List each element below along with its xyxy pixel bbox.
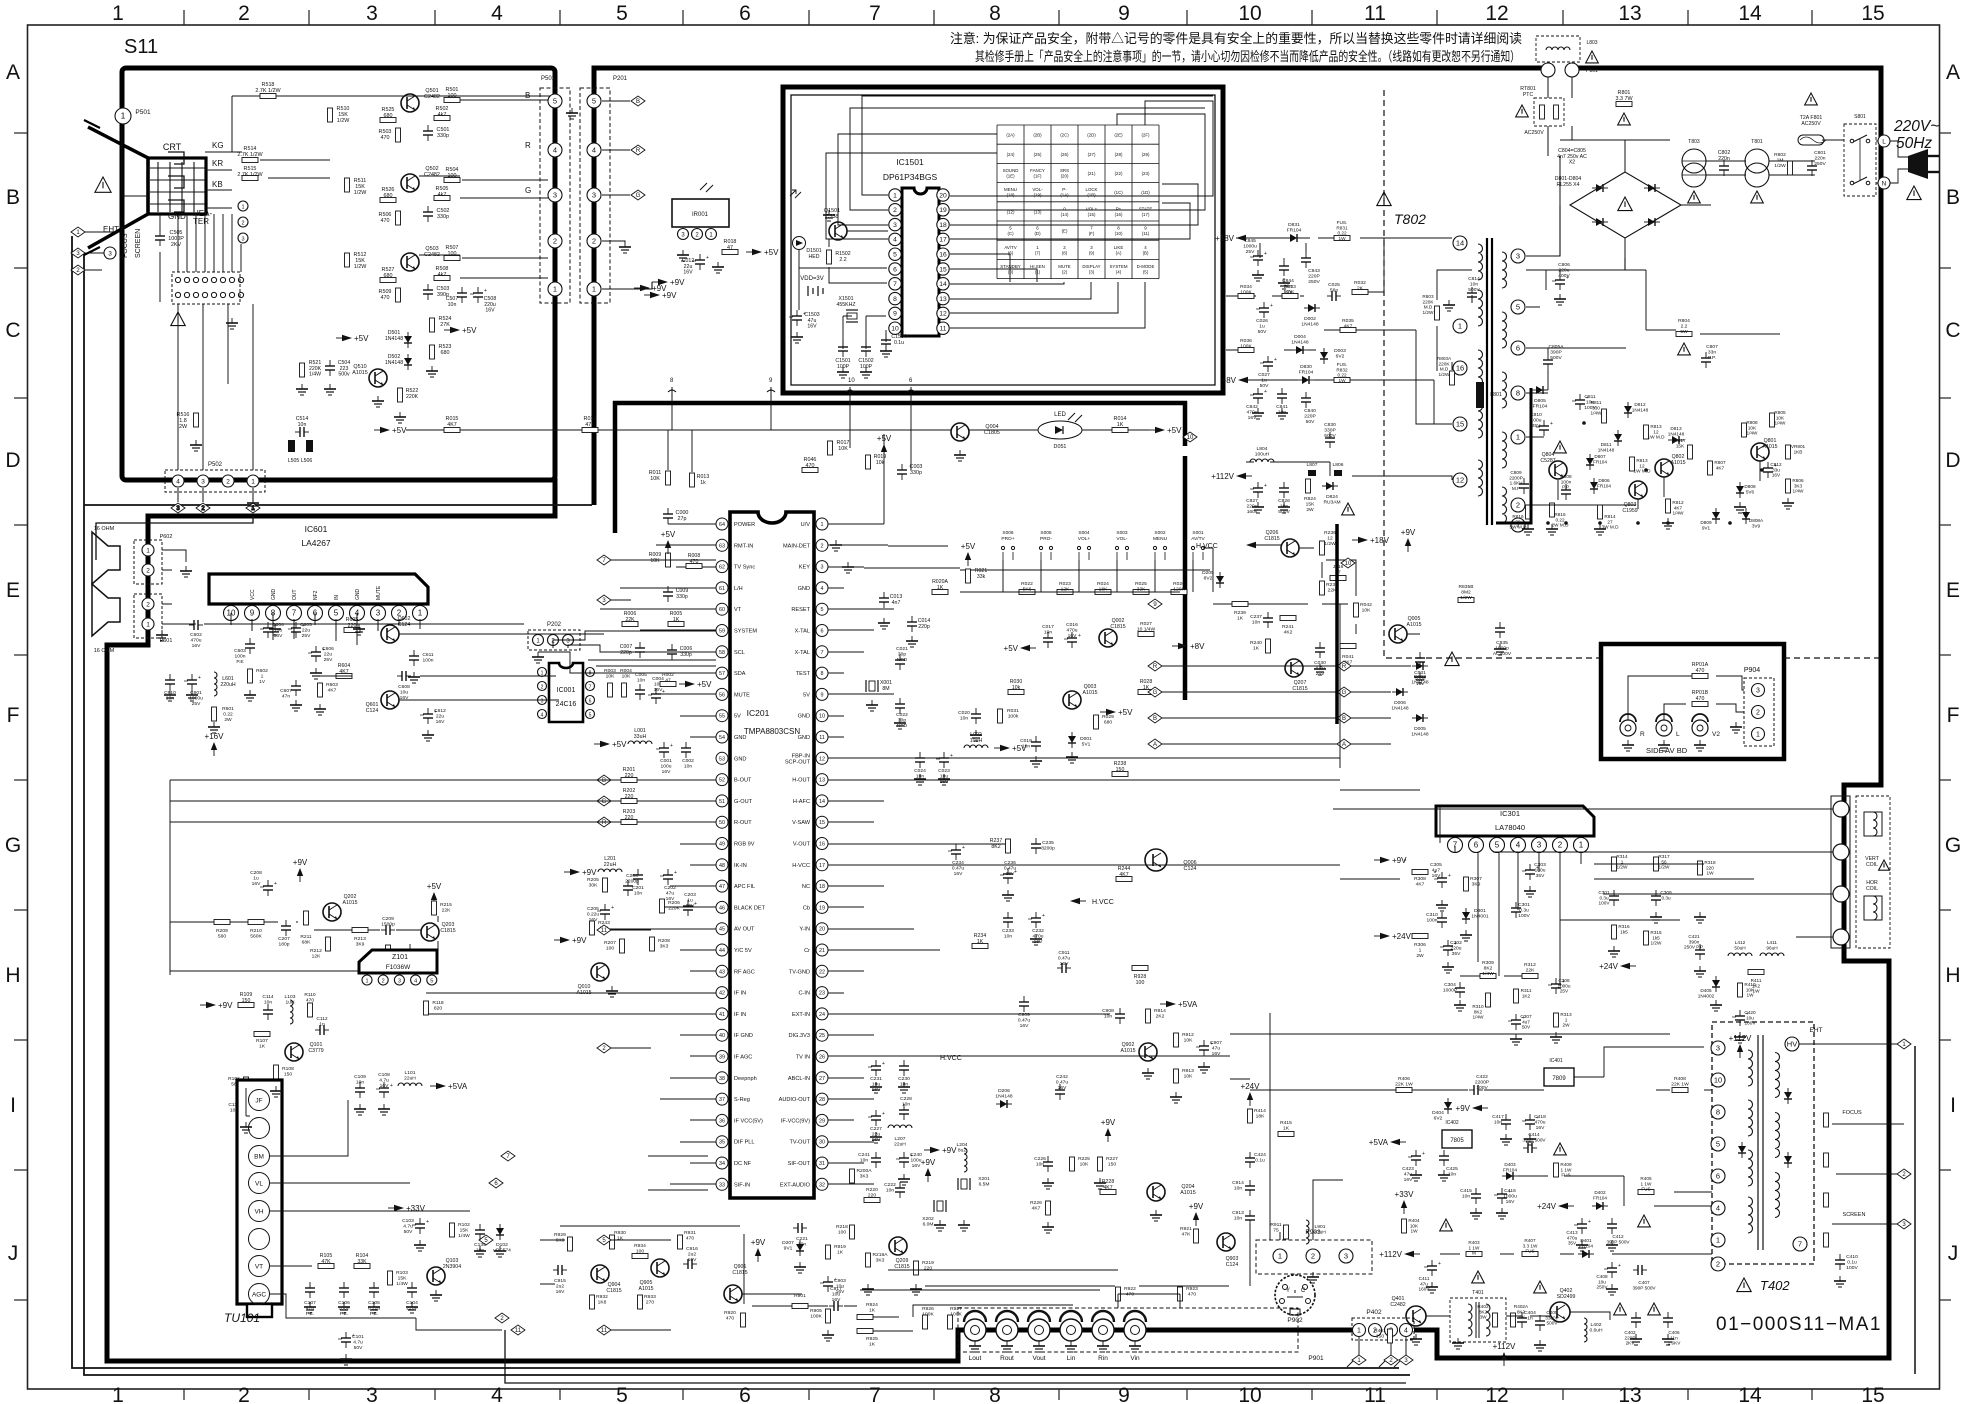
ground Q010 <box>606 986 618 997</box>
resistor R244 <box>1116 877 1132 882</box>
resistor J216 <box>1330 576 1346 581</box>
svg-text:JF: JF <box>255 1098 262 1105</box>
transistor Q004 <box>951 423 969 441</box>
svg-text:1000P: 1000P <box>1443 988 1457 994</box>
svg-text:C: C <box>5 319 20 342</box>
connector P903 <box>1256 1229 1372 1274</box>
svg-text:SIDE AV BD: SIDE AV BD <box>1646 746 1688 755</box>
supply +5V L002 <box>994 744 1027 753</box>
svg-text:D807: D807 <box>1594 454 1606 459</box>
svg-text:50Hz: 50Hz <box>1896 135 1932 152</box>
IR001 pins <box>678 229 689 240</box>
svg-text:16V: 16V <box>1058 1085 1067 1091</box>
svg-text:2W: 2W <box>1562 1023 1570 1028</box>
svg-text:D207: D207 <box>782 1240 794 1246</box>
svg-text:(2E): (2E) <box>1114 133 1123 138</box>
connector P501 top pin <box>115 108 131 124</box>
supply +9V L201 <box>564 868 597 877</box>
resistor R934 <box>632 1254 648 1259</box>
svg-text:C301: C301 <box>1518 902 1530 908</box>
IR arrows above IR001 <box>700 183 713 192</box>
svg-text:DC NF: DC NF <box>734 1161 752 1167</box>
svg-text:L207: L207 <box>895 1136 906 1142</box>
svg-text:180p: 180p <box>279 942 290 948</box>
coil L207 <box>888 1125 912 1128</box>
svg-text:HV: HV <box>1787 1039 1797 1048</box>
svg-text:2.7K 1/2W: 2.7K 1/2W <box>237 172 263 178</box>
svg-text:330: 330 <box>1592 405 1600 410</box>
resistor R213 <box>352 928 368 933</box>
svg-text:1K: 1K <box>259 1044 266 1050</box>
TU101 label <box>224 1311 260 1325</box>
TU101 pin circles <box>249 1090 270 1305</box>
svg-text:H-AFC: H-AFC <box>793 799 810 805</box>
svg-text:24C16: 24C16 <box>556 701 577 708</box>
IC201 pins <box>716 518 828 1190</box>
resistor R508 <box>434 276 450 281</box>
resistor R314 <box>1612 857 1617 871</box>
svg-text:R022: R022 <box>1021 581 1033 587</box>
capacitor C915 <box>553 1265 567 1275</box>
svg-text:(26): (26) <box>1061 152 1069 157</box>
svg-text:D824: D824 <box>1326 494 1338 500</box>
label 220V 50Hz <box>1893 118 1939 152</box>
svg-text:P602: P602 <box>160 534 173 540</box>
svg-text:1: 1 <box>146 547 150 554</box>
svg-text:9: 9 <box>893 311 897 318</box>
resistor R803A <box>1450 371 1455 385</box>
svg-text:C232: C232 <box>1032 928 1044 934</box>
svg-text:3: 3 <box>893 222 897 229</box>
svg-text:10n: 10n <box>264 1000 272 1006</box>
svg-text:G: G <box>1945 834 1961 857</box>
T802 right pins <box>1511 249 1525 263</box>
svg-text:P501: P501 <box>541 76 556 82</box>
svg-text:220: 220 <box>625 794 634 800</box>
svg-text:A1015: A1015 <box>342 900 357 906</box>
supply +5V IC001 <box>679 680 712 689</box>
svg-text:FR104: FR104 <box>1299 370 1314 376</box>
svg-text:P801: P801 <box>1586 68 1598 74</box>
wire T802 secondary ground bus <box>1496 388 1531 523</box>
svg-text:1K: 1K <box>1253 646 1260 652</box>
svg-text:22u: 22u <box>436 714 444 720</box>
supply +9V at P201 pin1 <box>652 278 685 287</box>
svg-text:220uH: 220uH <box>220 682 236 688</box>
capacitor C023 <box>936 752 953 768</box>
supply +5V L001 <box>594 740 627 749</box>
svg-text:MUTE: MUTE <box>734 692 750 698</box>
svg-text:C801: C801 <box>1814 150 1826 156</box>
capacitor C020 <box>971 708 981 724</box>
capacitor C234 <box>948 844 965 860</box>
svg-text:16V: 16V <box>1212 1051 1221 1057</box>
svg-text:+: + <box>1264 483 1267 489</box>
svg-text:IK-IN: IK-IN <box>734 863 747 869</box>
resistor R602 <box>248 669 253 683</box>
svg-text:2: 2 <box>146 601 150 608</box>
svg-text:2K2: 2K2 <box>1156 1014 1165 1020</box>
svg-text:S-Reg: S-Reg <box>734 1097 750 1103</box>
svg-text:2200P: 2200P <box>1509 475 1523 480</box>
svg-text:C5287: C5287 <box>1540 458 1555 464</box>
diode D805 <box>1532 386 1548 394</box>
svg-text:1: 1 <box>1579 840 1584 849</box>
svg-text:4: 4 <box>1716 1203 1720 1212</box>
supply +5V LED <box>1149 426 1182 435</box>
svg-text:30K: 30K <box>589 883 598 889</box>
svg-text:1K: 1K <box>673 617 680 623</box>
resistor R106 <box>244 1077 249 1091</box>
resistor R928 <box>1132 966 1148 971</box>
svg-text:470: 470 <box>381 218 390 224</box>
svg-text:+: + <box>611 905 614 911</box>
P904 grounds <box>1622 740 1634 751</box>
svg-text:R404: R404 <box>1408 1218 1420 1223</box>
svg-text:+5VA: +5VA <box>1178 1000 1198 1009</box>
transformer T802 <box>1478 238 1507 525</box>
svg-text:R210: R210 <box>250 928 262 934</box>
svg-text:AUDIO-OUT: AUDIO-OUT <box>779 1097 811 1103</box>
svg-text:DISPLAY: DISPLAY <box>1082 264 1100 269</box>
svg-text:R032: R032 <box>1354 280 1366 286</box>
svg-text:D831: D831 <box>1288 222 1300 228</box>
svg-text:1000u: 1000u <box>1243 244 1257 250</box>
svg-text:SCL: SCL <box>734 650 745 656</box>
capacitor C420 <box>1732 1010 1749 1026</box>
wire SCREEN <box>1832 1223 1904 1225</box>
svg-text:+9V: +9V <box>751 1238 766 1247</box>
wires flyback area <box>1250 1047 1712 1320</box>
svg-text:22: 22 <box>819 969 825 975</box>
svg-text:9: 9 <box>1118 2 1130 25</box>
svg-text:2W: 2W <box>1306 507 1314 513</box>
svg-text:0.47u: 0.47u <box>952 866 965 872</box>
svg-text:56n: 56n <box>1330 288 1338 294</box>
svg-text:AV/TV: AV/TV <box>1004 245 1016 250</box>
resistor R502 <box>434 116 450 121</box>
svg-text:+: + <box>1438 1261 1441 1267</box>
supply +18V ps <box>1215 234 1252 243</box>
svg-text:R803: R803 <box>1422 294 1434 299</box>
svg-text:680: 680 <box>1104 720 1112 726</box>
svg-text:12: 12 <box>939 311 947 318</box>
svg-text:220: 220 <box>924 1266 932 1272</box>
svg-text:2W: 2W <box>1416 953 1424 959</box>
svg-text:R824: R824 <box>1304 496 1316 502</box>
capacitor C405 <box>1535 1315 1545 1331</box>
wire wrap-around bus left/bottom <box>72 236 1410 1383</box>
svg-text:61: 61 <box>719 586 725 592</box>
svg-text:G: G <box>1342 690 1347 696</box>
svg-text:10K: 10K <box>622 674 631 680</box>
DIN connector P902 <box>1275 1275 1315 1324</box>
svg-text:4: 4 <box>491 2 503 25</box>
svg-text:R314: R314 <box>1616 854 1628 859</box>
svg-text:C421: C421 <box>1688 934 1700 939</box>
resistor R930 <box>610 1235 615 1249</box>
svg-text:R-OUT: R-OUT <box>734 820 752 826</box>
svg-text:(1A): (1A) <box>1060 193 1069 198</box>
capacitor C232 <box>1028 912 1045 928</box>
svg-text:R241: R241 <box>1282 624 1294 630</box>
svg-text:MAIN-DET: MAIN-DET <box>783 543 811 549</box>
svg-text:01−000S11−MA1: 01−000S11−MA1 <box>1716 1314 1882 1335</box>
svg-text:C016: C016 <box>1066 622 1078 628</box>
svg-text:NF2: NF2 <box>313 590 319 600</box>
svg-text:1K: 1K <box>1237 616 1244 622</box>
svg-text:COIL: COIL <box>1866 886 1878 892</box>
svg-text:L/H: L/H <box>734 586 743 592</box>
svg-text:U/V: U/V <box>801 522 811 528</box>
svg-text:7: 7 <box>869 1384 881 1404</box>
svg-text:S801: S801 <box>1854 114 1866 120</box>
capacitor C502 <box>423 206 433 222</box>
capacitor C1504 <box>881 334 891 350</box>
svg-text:R213: R213 <box>354 936 366 942</box>
svg-text:38: 38 <box>719 1076 725 1082</box>
IC1501 left pins <box>889 189 901 335</box>
svg-text:注意: 为保证产品安全，附带△记号的零件是具有安全上的重要性: 注意: 为保证产品安全，附带△记号的零件是具有安全上的重要性，所以当替换这些零件… <box>950 30 1522 46</box>
svg-text:A1015: A1015 <box>1762 444 1777 450</box>
svg-text:COIL: COIL <box>1866 862 1878 868</box>
crystal X1501 <box>846 310 858 322</box>
svg-text:330p: 330p <box>437 214 449 220</box>
svg-text:IC402: IC402 <box>1445 1120 1459 1126</box>
svg-text:(1B): (1B) <box>1087 193 1096 198</box>
resistor R926 <box>923 1315 928 1329</box>
svg-text:96uH: 96uH <box>1766 945 1777 950</box>
svg-text:CRT: CRT <box>163 142 182 152</box>
svg-text:(6): (6) <box>1008 250 1014 255</box>
transistor Q005 <box>1389 625 1407 643</box>
supply +5VA reg <box>1369 1138 1406 1147</box>
svg-text:+9V: +9V <box>662 291 677 300</box>
svg-text:33n: 33n <box>1708 350 1716 356</box>
supply +24V r315 <box>1599 962 1636 971</box>
svg-text:16V: 16V <box>1536 1125 1545 1131</box>
svg-text:15: 15 <box>1456 419 1464 428</box>
svg-text:H-VCC: H-VCC <box>792 863 810 869</box>
resistor R208 <box>650 937 655 951</box>
resistor R514 <box>242 158 258 163</box>
resistor R211 <box>304 911 309 925</box>
transistor Q002 <box>1099 629 1117 647</box>
svg-text:1/2W: 1/2W <box>1423 310 1435 315</box>
svg-text:10K: 10K <box>1184 1074 1193 1080</box>
Z101 label <box>392 954 408 961</box>
resistor R521 <box>300 363 305 377</box>
svg-text:J: J <box>8 1242 19 1265</box>
capacitor C303 <box>1522 864 1539 880</box>
supply +5V Q203 <box>427 882 442 906</box>
resistor R807 <box>1708 461 1713 475</box>
resistor R503 <box>396 128 401 142</box>
svg-text:R209: R209 <box>216 928 228 934</box>
svg-text:T802: T802 <box>1394 211 1426 227</box>
svg-text:100: 100 <box>606 946 614 952</box>
svg-text:+24V: +24V <box>1392 932 1412 941</box>
svg-text:EXT-IN: EXT-IN <box>792 1012 810 1018</box>
resistor R235 <box>1320 581 1325 595</box>
svg-text:2KV: 2KV <box>1626 1341 1636 1346</box>
svg-text:TV-GND: TV-GND <box>789 969 810 975</box>
supply +5V mid <box>336 334 369 343</box>
svg-text:+9V: +9V <box>218 1001 233 1010</box>
capacitor C236 <box>1000 868 1017 884</box>
svg-text:220n: 220n <box>1815 156 1826 162</box>
svg-text:10n: 10n <box>1252 620 1260 626</box>
T402 core lines <box>1758 1035 1763 1250</box>
svg-text:GND: GND <box>798 735 810 741</box>
switch S801 <box>1844 114 1876 196</box>
svg-text:3K3: 3K3 <box>660 944 669 950</box>
wires Q202 Q203 row <box>170 916 438 971</box>
wires P202 to IC201 bus <box>538 631 716 673</box>
capacitor C810 <box>1536 420 1553 436</box>
svg-text:PRO+: PRO+ <box>1001 536 1014 542</box>
svg-text:LOCK: LOCK <box>1086 187 1098 192</box>
transistor Q903 <box>1217 1233 1235 1251</box>
svg-text:1/2W: 1/2W <box>1774 163 1786 169</box>
capacitor C814 <box>1467 287 1477 303</box>
resistor R241 <box>1280 616 1296 621</box>
svg-text:L: L <box>1676 731 1680 738</box>
svg-text:100: 100 <box>838 1230 846 1236</box>
T402 diodes <box>1784 1088 1792 1104</box>
svg-text:C420: C420 <box>1744 1010 1756 1015</box>
svg-text:FUS: FUS <box>1561 1173 1570 1178</box>
T402 pins <box>1711 1041 1725 1055</box>
svg-text:FR104: FR104 <box>1593 459 1607 464</box>
wires AC input <box>1548 77 1890 258</box>
coil L103 <box>290 1000 293 1024</box>
svg-text:R807: R807 <box>1714 460 1726 465</box>
resistor R802 <box>1788 161 1793 175</box>
svg-text:5: 5 <box>589 712 592 718</box>
supply +33V tuner <box>388 1204 426 1213</box>
svg-text:4: 4 <box>1516 840 1521 849</box>
svg-text:TU101: TU101 <box>224 1311 260 1325</box>
svg-text:R920: R920 <box>724 1310 736 1316</box>
svg-text:16V: 16V <box>485 308 495 314</box>
svg-text:1: 1 <box>251 478 255 485</box>
svg-text:10n: 10n <box>1044 630 1052 636</box>
capacitor C309 <box>1651 890 1661 906</box>
svg-text:IC301: IC301 <box>1500 809 1520 818</box>
svg-text:C124: C124 <box>398 622 411 628</box>
svg-text:C612: C612 <box>434 708 446 714</box>
svg-text:8: 8 <box>1716 1107 1720 1116</box>
svg-text:35V: 35V <box>1536 873 1545 879</box>
wires IF bottom <box>286 1266 502 1330</box>
capacitor C908 <box>1115 1008 1125 1024</box>
IC601 pin names <box>250 585 382 600</box>
resistor R228 <box>1100 1190 1116 1195</box>
svg-text:R919: R919 <box>834 1244 846 1250</box>
svg-text:X201: X201 <box>978 1176 990 1182</box>
supply +9V Q903 <box>1189 1202 1204 1226</box>
capacitor C108 <box>376 1082 393 1098</box>
capacitor C417 <box>1501 1114 1511 1130</box>
resistor R516 <box>194 413 199 427</box>
capacitor C105 <box>369 1282 379 1298</box>
connector P501 column <box>540 76 570 303</box>
svg-text:1/2W: 1/2W <box>354 190 367 196</box>
svg-text:1/4W: 1/4W <box>1482 971 1494 977</box>
svg-text:LA4267: LA4267 <box>301 538 331 548</box>
ground Q004 <box>954 450 966 461</box>
supply +5V above R009 <box>661 530 676 554</box>
svg-text:FUS: FUS <box>1641 1187 1650 1192</box>
svg-text:0.22: 0.22 <box>1555 517 1565 522</box>
svg-text:+: + <box>694 901 697 907</box>
resistor R029 <box>1094 715 1099 729</box>
svg-text:TER: TER <box>193 217 209 226</box>
svg-text:R226: R226 <box>1030 1200 1042 1206</box>
svg-text:D806: D806 <box>1598 478 1610 483</box>
svg-text:R835B: R835B <box>1459 584 1474 590</box>
capacitor C404 <box>1517 1312 1527 1328</box>
svg-text:10n: 10n <box>860 1158 868 1164</box>
resistor R526 <box>380 198 396 203</box>
diode D830 <box>1298 376 1314 384</box>
svg-text:10n: 10n <box>1494 1120 1502 1126</box>
transistor Q501 <box>401 94 419 112</box>
svg-text:C241: C241 <box>858 1152 870 1158</box>
svg-text:LED: LED <box>1054 412 1066 418</box>
svg-text:G: G <box>1153 690 1158 696</box>
svg-text:P502: P502 <box>208 462 223 468</box>
svg-text:10n: 10n <box>1470 282 1478 288</box>
svg-text:1u: 1u <box>1261 378 1267 384</box>
svg-text:25V: 25V <box>192 701 201 707</box>
svg-text:9V1: 9V1 <box>1702 525 1711 530</box>
svg-text:1: 1 <box>146 621 150 628</box>
svg-text:D402: D402 <box>1594 1190 1606 1195</box>
svg-text:20: 20 <box>939 192 947 199</box>
svg-text:POWER: POWER <box>734 522 755 528</box>
svg-text:C417: C417 <box>1492 1114 1504 1120</box>
capacitor C203 <box>680 900 697 916</box>
svg-text:C230: C230 <box>898 1076 910 1082</box>
svg-text:C027: C027 <box>1258 372 1270 378</box>
svg-text:7809: 7809 <box>1552 1076 1566 1082</box>
svg-text:B: B <box>1946 186 1960 209</box>
svg-text:A1015: A1015 <box>352 370 368 376</box>
resistor R405 <box>1638 1190 1654 1195</box>
resistor R409 <box>1554 1163 1559 1177</box>
wires key row <box>960 548 1213 592</box>
svg-text:AGC: AGC <box>252 1292 266 1299</box>
svg-text:+5V: +5V <box>1118 708 1133 717</box>
connector P201 column <box>580 76 628 303</box>
svg-text:1N4148: 1N4148 <box>1598 447 1615 452</box>
capacitor C242 <box>1055 1084 1065 1100</box>
capacitor C805A <box>1543 354 1553 370</box>
svg-text:+: + <box>950 753 953 759</box>
P904 bottom label <box>1646 746 1688 755</box>
svg-text:1N4148: 1N4148 <box>385 336 403 342</box>
svg-text:R219: R219 <box>922 1260 934 1266</box>
svg-text:Y: Y <box>1286 1288 1290 1294</box>
resistor R316 <box>1612 925 1617 939</box>
capacitor C240 <box>896 1152 913 1168</box>
svg-text:10K: 10K <box>1746 987 1755 992</box>
svg-text:680: 680 <box>384 193 393 199</box>
svg-text:9V1: 9V1 <box>784 1246 793 1252</box>
svg-text:EXT-AUDIO: EXT-AUDIO <box>780 1182 811 1188</box>
